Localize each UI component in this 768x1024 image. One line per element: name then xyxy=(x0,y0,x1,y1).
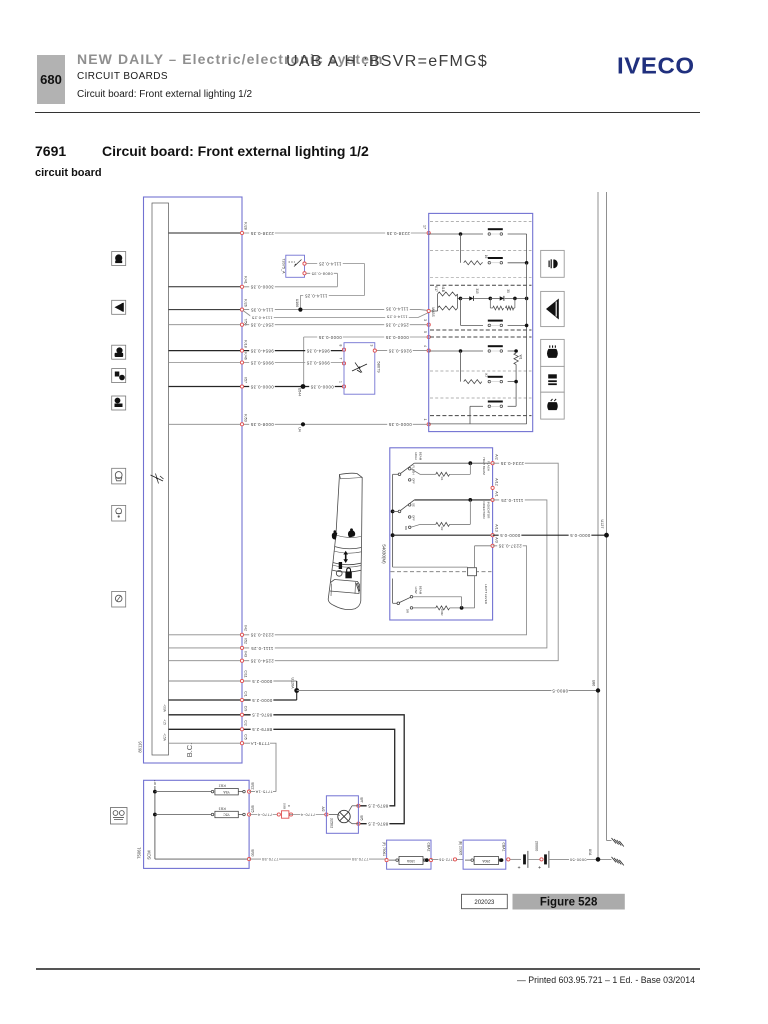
wire 7779-1A from B.C. C/5 xyxy=(169,742,243,744)
icon tail lamp xyxy=(112,369,126,383)
svg-text:LOW: LOW xyxy=(414,587,418,594)
svg-text:OFF: OFF xyxy=(412,478,416,484)
svg-text:I/52: I/52 xyxy=(244,638,248,644)
ground bus top ground symbol xyxy=(607,840,612,842)
cluster direction-indicator resistor 41B xyxy=(438,306,458,310)
fuse box 23005 CBA1 xyxy=(463,840,506,869)
svg-text:U4: U4 xyxy=(298,427,302,432)
svg-text:+30: +30 xyxy=(153,780,157,785)
svg-text:C/11: C/11 xyxy=(244,670,248,677)
wire 7772-16 between fuses xyxy=(431,858,463,860)
svg-text:RB2: RB2 xyxy=(218,784,226,788)
svg-text:+: + xyxy=(538,864,541,870)
fuse box 79061 CBA2 xyxy=(387,840,431,869)
chapter title NEW DAILY xyxy=(77,51,384,67)
wire 0808-0.35 from 72075_A pin 1 xyxy=(305,272,338,274)
svg-text:LIGHT LEVER: LIGHT LEVER xyxy=(484,584,488,605)
icon direction indicator triangle xyxy=(112,300,126,314)
svg-text:7770-4: 7770-4 xyxy=(301,813,316,817)
wire 0000-0.5 from A/13 to bus xyxy=(493,534,607,536)
wire 1114-0.25 from 72075_A pin 2 xyxy=(305,263,365,265)
svg-text:A/1: A/1 xyxy=(495,491,499,496)
svg-text:5: 5 xyxy=(423,331,427,333)
cluster dashed separator 7 xyxy=(430,370,532,372)
wire 2237-0.35 from A/3 wrap xyxy=(169,634,243,636)
svg-text:9905-0.25: 9905-0.25 xyxy=(250,360,274,365)
B.C. internal connector strip xyxy=(152,203,169,755)
svg-text:C/5: C/5 xyxy=(244,734,248,740)
cluster DI mid junction xyxy=(474,297,490,299)
svg-text:72075_A: 72075_A xyxy=(281,258,285,274)
cluster row8 switch xyxy=(470,405,483,407)
svg-text:1114-0.35: 1114-0.35 xyxy=(385,306,408,311)
54030 high-beam lever xyxy=(398,473,401,476)
svg-text:SUB: SUB xyxy=(283,803,287,809)
wire 2234-0.35 from A/2 wrap xyxy=(169,660,243,662)
cluster resistor W1 vertical xyxy=(514,353,518,365)
bus line 0000 left xyxy=(597,192,599,861)
svg-text:HIGH BEAM: HIGH BEAM xyxy=(482,457,486,475)
cluster row1 wire and switch xyxy=(429,233,483,235)
svg-text:K/41: K/41 xyxy=(244,276,248,283)
svg-text:20000: 20000 xyxy=(535,841,539,852)
svg-text:R1: R1 xyxy=(440,477,444,481)
svg-text:41B: 41B xyxy=(441,286,445,292)
wire link down to K/41 wire xyxy=(336,273,338,287)
svg-text:0000-0.5: 0000-0.5 xyxy=(500,533,521,538)
svg-text:58079: 58079 xyxy=(377,361,382,373)
cluster DI diode 30 xyxy=(490,297,499,299)
svg-text:C/2: C/2 xyxy=(244,720,248,726)
stalk icon fog lamps xyxy=(332,532,338,539)
svg-text:3: 3 xyxy=(423,319,427,321)
wire 1114-0.25 from B.C. K/56 to cluster MASS xyxy=(243,311,253,318)
cluster direction-indicator resistor K17 xyxy=(438,292,458,296)
switch 72075_A lever xyxy=(289,261,296,263)
svg-text:0000-0.35: 0000-0.35 xyxy=(388,422,412,427)
B.C. internal switch symbol xyxy=(151,474,164,484)
wire 1114-0.25 vertical link from switch xyxy=(364,264,366,296)
svg-text:9854-0.35: 9854-0.35 xyxy=(250,348,274,353)
SCM bottom output wire xyxy=(155,858,249,860)
svg-text:K17: K17 xyxy=(434,286,438,292)
svg-text:3: 3 xyxy=(370,345,374,347)
wire 8879-2.5 from B.C. C/2 xyxy=(169,728,243,730)
svg-text:250A: 250A xyxy=(482,859,491,863)
svg-text:C/1: C/1 xyxy=(244,691,248,697)
cluster row7 switch xyxy=(488,376,503,378)
54030 high-beam section wire xyxy=(414,462,492,464)
svg-text:K/28: K/28 xyxy=(244,222,248,229)
icon daytime running lamps xyxy=(111,808,128,825)
svg-text:1114-0.25: 1114-0.25 xyxy=(252,315,273,320)
svg-text:I/42: I/42 xyxy=(244,625,248,631)
junction U126A link xyxy=(296,681,298,700)
svg-text:360R: 360R xyxy=(440,609,444,616)
wire 0000-2.5 from B.C. C/1 xyxy=(169,699,243,701)
stalk hatch detail xyxy=(356,583,360,592)
svg-text:Figure 528: Figure 528 xyxy=(540,897,598,909)
cluster row6 wire and switch xyxy=(429,350,483,352)
54030 direction-indicator wire xyxy=(414,499,492,501)
svg-text:1111-0.25: 1111-0.25 xyxy=(251,646,274,651)
svg-text:1114-0.35: 1114-0.35 xyxy=(250,307,273,312)
svg-text:OFF: OFF xyxy=(412,515,416,521)
junction U166 xyxy=(298,308,302,312)
icon cluster fog rear xyxy=(541,366,565,392)
svg-text:2238-0.35: 2238-0.35 xyxy=(250,231,274,236)
switch 72075_A box xyxy=(286,255,305,277)
svg-text:W1: W1 xyxy=(519,355,523,360)
svg-text:U86: U86 xyxy=(592,680,596,687)
junction U127 xyxy=(604,533,609,538)
svg-text:54030(M): 54030(M) xyxy=(381,544,386,564)
svg-text:FLASH: FLASH xyxy=(487,461,491,471)
cluster bottom wire from pin 1 xyxy=(429,423,527,425)
wire 1111-0.25 from A/1 wrap xyxy=(169,647,243,649)
wire link down to U544 xyxy=(303,337,305,387)
54030 pin A/3 wire xyxy=(475,545,493,547)
svg-text:(F) 79061: (F) 79061 xyxy=(382,842,386,856)
column stalk lever drawing xyxy=(328,473,362,609)
wire 0000-50 battery to ground bus xyxy=(549,858,612,860)
cluster link down right bus xyxy=(526,263,528,299)
svg-text:0008-0.35: 0008-0.35 xyxy=(250,422,274,427)
wire to battery xyxy=(506,858,521,860)
svg-text:0000-2.5: 0000-2.5 xyxy=(252,698,273,703)
svg-text:Y5A: Y5A xyxy=(223,790,230,794)
svg-text:BEAM: BEAM xyxy=(419,586,423,595)
svg-text:7772-56: 7772-56 xyxy=(439,857,455,861)
svg-text:1114-0.25: 1114-0.25 xyxy=(304,293,327,298)
switch 58079 box xyxy=(344,343,375,395)
svg-text:I/57: I/57 xyxy=(244,377,248,383)
svg-text:RB3: RB3 xyxy=(218,806,226,810)
54030 left bus xyxy=(392,474,394,567)
svg-text:U544: U544 xyxy=(298,388,302,397)
wire 3000-0.35 from B.C. K/41 xyxy=(169,286,243,288)
icon number plate lamp xyxy=(112,396,126,410)
32502 wires to pins xyxy=(348,806,352,812)
svg-text:+15: +15 xyxy=(163,719,167,725)
54030 dashed internal separator xyxy=(391,571,492,573)
stalk ring outline xyxy=(336,570,342,576)
svg-text:4: 4 xyxy=(423,345,427,347)
svg-text:0000-0.35: 0000-0.35 xyxy=(385,335,409,340)
svg-text:1114-0.25: 1114-0.25 xyxy=(318,261,341,266)
svg-text:K/53: K/53 xyxy=(244,414,248,421)
wire 9905-0.25 from B.C. K/46 to 58079 pin 7 xyxy=(169,362,243,364)
svg-text:8879-2.5: 8879-2.5 xyxy=(368,804,389,809)
54030 bus to connector xyxy=(393,566,468,568)
battery 20000 xyxy=(523,854,526,864)
54030 lower lever xyxy=(392,579,394,604)
svg-text:SE: SE xyxy=(412,503,416,507)
svg-text:86116: 86116 xyxy=(138,741,143,753)
subsection title xyxy=(77,89,252,100)
lamp unit 32502 box xyxy=(326,796,358,834)
icon cluster position lamps xyxy=(541,250,565,277)
wire 8876-2.5 from B.C. C/9 xyxy=(169,714,243,716)
module SCM 75061 box xyxy=(144,780,250,868)
cluster dashed separator 8 xyxy=(430,397,532,399)
icon cluster fog front xyxy=(541,392,565,419)
heading 7691 xyxy=(35,143,66,159)
footer imprint xyxy=(517,975,695,985)
svg-text:A/2: A/2 xyxy=(321,806,325,811)
icon head lamp low beam xyxy=(112,345,126,359)
svg-text:Y5C: Y5C xyxy=(223,813,230,817)
svg-text:(B) 23005: (B) 23005 xyxy=(459,841,463,856)
cluster row2 resistor xyxy=(464,261,482,265)
header rule xyxy=(35,112,700,114)
wire 9265-0.35 from 58079 pin 3 to cluster pin 4 xyxy=(375,350,429,352)
54030 lower resistor 360R xyxy=(413,607,436,609)
svg-text:1: 1 xyxy=(339,381,343,383)
svg-text:8876-2.5: 8876-2.5 xyxy=(252,713,273,718)
svg-text:0000-50: 0000-50 xyxy=(569,857,586,861)
figure caption Figure 528 xyxy=(513,894,625,910)
bus line 0000 right xyxy=(606,192,608,841)
ecu B.C. 86116 outline xyxy=(144,197,243,763)
wire 7775-1A from SCM B/22 xyxy=(249,791,276,793)
svg-text:SCM: SCM xyxy=(147,850,152,860)
wire 7770-4 to 32502 xyxy=(289,814,327,816)
svg-text:3000-0.35: 3000-0.35 xyxy=(250,285,274,290)
svg-text:16: 16 xyxy=(484,255,488,259)
svg-text:7770-4: 7770-4 xyxy=(258,813,273,817)
section title CIRCUIT BOARDS xyxy=(77,71,168,82)
footer rule xyxy=(36,968,700,970)
svg-text:+: + xyxy=(517,864,520,870)
figure code box 202023 xyxy=(462,894,508,908)
wire 0000-0.35 from B.C. I/57 to 58079 pin 1 xyxy=(169,386,243,388)
32502 lamp symbol xyxy=(338,810,350,822)
svg-text:C/9: C/9 xyxy=(244,706,248,712)
svg-text:K/26: K/26 xyxy=(244,299,248,306)
svg-text:U0A: U0A xyxy=(588,849,592,856)
svg-text:2238-0.35: 2238-0.35 xyxy=(386,231,410,236)
cluster row1-row2 link xyxy=(460,234,462,263)
icon lamp outline 1 xyxy=(112,468,126,484)
svg-text:MASS: MASS xyxy=(431,307,435,317)
wire 0800-5 to ground bus xyxy=(297,690,598,692)
junction U4 xyxy=(301,422,305,426)
svg-text:BEAM: BEAM xyxy=(419,452,423,461)
svg-text:A/2: A/2 xyxy=(495,454,499,459)
svg-text:R2: R2 xyxy=(440,527,444,531)
cluster dashed separator 6 xyxy=(430,336,532,338)
54030 output wire A/13 xyxy=(393,534,493,536)
svg-text:A/3: A/3 xyxy=(495,537,499,542)
svg-text:0000-0.35: 0000-0.35 xyxy=(318,335,342,340)
switch 58079 lever symbol xyxy=(352,364,367,371)
54030 internal connector square xyxy=(468,568,477,576)
wire 7770-4 from SCM B/25 xyxy=(249,814,280,816)
svg-text:A/12: A/12 xyxy=(495,478,499,485)
wire 7770-50 from SCM B/30 to fuse CBA2 xyxy=(249,858,387,860)
svg-text:K7: K7 xyxy=(484,374,488,378)
svg-text:2254-0.35: 2254-0.35 xyxy=(250,659,274,664)
SCM internal bus xyxy=(154,786,156,859)
svg-text:HIGH: HIGH xyxy=(414,452,418,460)
cluster dashed separator 3 xyxy=(430,276,532,278)
svg-text:7770-50: 7770-50 xyxy=(351,857,368,861)
connector SUB C xyxy=(277,813,280,816)
svg-text:1: 1 xyxy=(423,419,427,421)
wire 0000-2.5 from B.C. C/11 xyxy=(169,680,243,682)
svg-text:32502: 32502 xyxy=(330,818,334,829)
svg-text:0000-2.5: 0000-2.5 xyxy=(252,679,273,684)
wire 0000-0.35 from cluster pin 5 xyxy=(304,336,429,338)
cluster dashed separator 9 xyxy=(430,415,532,417)
svg-text:INDICATOR: INDICATOR xyxy=(487,502,491,519)
svg-text:K/18: K/18 xyxy=(244,340,248,347)
stalk icon band bar xyxy=(339,562,342,569)
54030 DI resistor xyxy=(411,524,420,527)
cluster DI resistor W xyxy=(493,306,504,310)
subheading circuit board xyxy=(35,167,102,179)
svg-text:0000-0.35: 0000-0.35 xyxy=(310,384,334,389)
junction on bus xyxy=(596,857,601,862)
svg-text:I/43: I/43 xyxy=(244,651,248,657)
svg-text:DR: DR xyxy=(406,609,410,613)
wire 2238-0.35 from B.C. K/28 to cluster pin 17 xyxy=(169,232,243,234)
svg-text:B/5: B/5 xyxy=(360,815,364,820)
svg-text:U166: U166 xyxy=(295,299,299,308)
svg-text:+15A: +15A xyxy=(163,733,167,742)
ground symbol right of battery xyxy=(612,857,617,863)
svg-text:U126A: U126A xyxy=(291,678,295,690)
SCM relay RB3 xyxy=(155,814,212,816)
stalk icon lock xyxy=(345,572,351,579)
svg-text:0000-0.35: 0000-0.35 xyxy=(250,384,274,389)
svg-text:2567-0.35: 2567-0.35 xyxy=(385,323,409,328)
svg-text:CBA1: CBA1 xyxy=(501,843,505,852)
svg-text:8: 8 xyxy=(339,345,343,347)
cluster box outline xyxy=(429,213,533,431)
junction U544 xyxy=(301,384,306,389)
svg-text:C: C xyxy=(287,805,291,808)
svg-text:7: 7 xyxy=(339,358,343,360)
svg-text:0000-0.5: 0000-0.5 xyxy=(570,533,591,538)
icon cluster direction indicators xyxy=(541,291,565,326)
page number block 680 xyxy=(37,55,65,104)
svg-text:K/46: K/46 xyxy=(244,352,248,359)
icon cluster low beam xyxy=(541,339,565,366)
54030 light lever lower section xyxy=(474,576,476,608)
SCM relay RB2 xyxy=(155,791,212,793)
wire 1114-0.35 from B.C. K/26 to cluster MASS xyxy=(169,309,243,311)
IVECO logo xyxy=(617,54,695,81)
cluster dashed separator 1 xyxy=(430,221,532,223)
icon front fog lamp xyxy=(112,252,126,266)
cluster row7 resistor K7 xyxy=(464,380,482,384)
svg-text:+30A: +30A xyxy=(163,704,167,713)
svg-text:0808-0.35: 0808-0.35 xyxy=(311,271,333,276)
svg-text:2234-0.35: 2234-0.35 xyxy=(500,461,524,466)
cluster row6-row7 links xyxy=(460,351,462,382)
watermark overlay text xyxy=(286,53,488,71)
svg-text:DIRECTION: DIRECTION xyxy=(482,501,486,518)
svg-text:U127: U127 xyxy=(600,519,604,528)
svg-text:A/13: A/13 xyxy=(495,524,499,531)
svg-text:7779-1A: 7779-1A xyxy=(250,741,269,746)
svg-text:7775-1A: 7775-1A xyxy=(255,790,273,794)
svg-text:B/30: B/30 xyxy=(251,850,255,857)
svg-text:2567-0.35: 2567-0.35 xyxy=(250,323,274,328)
svg-text:8879-2.5: 8879-2.5 xyxy=(252,727,273,732)
svg-text:B/7: B/7 xyxy=(360,797,364,802)
switch unit 54030(M) box xyxy=(390,448,493,620)
svg-text:9854-0.35: 9854-0.35 xyxy=(306,348,330,353)
cluster dashed separator 2 xyxy=(430,249,532,251)
svg-text:2232-0.35: 2232-0.35 xyxy=(250,633,274,638)
stalk icon rotate arrow xyxy=(345,554,347,561)
cluster DI diode 315 xyxy=(459,297,463,301)
svg-text:CBA2: CBA2 xyxy=(426,843,430,852)
svg-text:9265-0.35: 9265-0.35 xyxy=(388,348,412,353)
54030 DI lever xyxy=(398,510,401,513)
svg-text:1111-0.25: 1111-0.25 xyxy=(501,498,524,503)
svg-text:B.C.: B.C. xyxy=(185,743,194,758)
svg-text:202023: 202023 xyxy=(474,900,495,906)
fuse 150A in CBA2 xyxy=(399,857,423,865)
svg-text:17: 17 xyxy=(423,225,427,229)
54030 pin A/12 stub xyxy=(491,486,494,489)
svg-text:2237-0.35: 2237-0.35 xyxy=(498,544,522,549)
cluster row4 switch xyxy=(461,324,484,326)
cluster dashed separator 4 xyxy=(430,284,532,286)
svg-text:30: 30 xyxy=(506,289,510,293)
cluster row2 switch xyxy=(488,257,503,259)
54030 flash resistor xyxy=(411,469,420,475)
svg-text:DR: DR xyxy=(404,526,408,530)
wire 9854-0.35 from B.C. K/18 to 58079 pin 8 xyxy=(169,350,243,352)
icon lamp outline 3 xyxy=(112,591,126,607)
svg-text:8876-2.5: 8876-2.5 xyxy=(368,822,389,827)
svg-text:1114-0.25: 1114-0.25 xyxy=(387,314,408,319)
cluster DI resistor 10 xyxy=(506,306,514,310)
svg-text:9905-0.25: 9905-0.25 xyxy=(306,360,330,365)
cluster DI left link to MASS pin xyxy=(429,310,438,312)
svg-text:7770-50: 7770-50 xyxy=(261,857,278,861)
svg-text:B/25: B/25 xyxy=(251,806,255,813)
cluster dashed separator 5 xyxy=(430,329,532,331)
svg-text:75061: 75061 xyxy=(137,847,142,859)
icon lamp outline 2 xyxy=(112,505,126,521)
svg-text:315: 315 xyxy=(475,288,479,294)
fuse 250A in CBA1 xyxy=(474,857,498,865)
svg-text:B/22: B/22 xyxy=(251,783,255,790)
wire 2567-0.35 from B.C. to cluster pin 3 xyxy=(169,324,243,326)
svg-text:0800-5: 0800-5 xyxy=(552,688,568,693)
svg-text:150A: 150A xyxy=(406,859,415,863)
wire 0008-0.35 from B.C. K/53 to cluster pin 1 xyxy=(169,423,243,425)
